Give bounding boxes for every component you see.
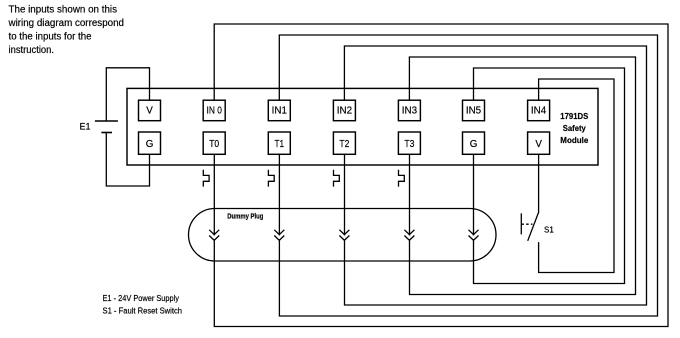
plug pin chevrons T2 xyxy=(339,230,349,241)
test contact jog at T2 xyxy=(334,170,340,187)
svg-text:instruction.: instruction. xyxy=(9,45,55,56)
svg-text:T2: T2 xyxy=(339,139,349,150)
svg-text:IN3: IN3 xyxy=(402,106,418,117)
module label 1791DS Safety Module xyxy=(560,111,588,145)
module U1 box (1791DS Safety Module) xyxy=(127,88,598,165)
wire loop IN1-T1 xyxy=(279,35,657,316)
terminal T2 xyxy=(333,132,355,154)
svg-text:S1: S1 xyxy=(544,226,554,235)
legend text xyxy=(103,294,183,316)
svg-text:T1: T1 xyxy=(275,139,285,150)
switch S1 actuator bar xyxy=(520,213,522,234)
svg-text:Dummy Plug: Dummy Plug xyxy=(227,213,263,220)
svg-text:V: V xyxy=(535,139,542,150)
svg-text:IN4: IN4 xyxy=(531,106,547,117)
note text xyxy=(8,4,125,56)
battery E1 positive plate xyxy=(95,120,118,122)
test contact jog at T0 xyxy=(203,170,209,187)
wire V to E1 top xyxy=(106,68,149,121)
svg-text:The inputs shown on this: The inputs shown on this xyxy=(9,4,118,15)
plug pin chevrons T3 xyxy=(404,230,414,241)
terminal V (bottom row, right) xyxy=(528,132,550,154)
svg-text:G: G xyxy=(146,139,154,150)
switch S1 upper wire xyxy=(538,154,540,211)
svg-text:1791DS: 1791DS xyxy=(560,111,588,121)
svg-text:G: G xyxy=(470,139,478,150)
svg-text:Safety: Safety xyxy=(563,123,586,133)
wire E1 bottom to G xyxy=(106,133,149,187)
svg-text:IN 0: IN 0 xyxy=(207,106,223,117)
switch S1 actuator link (dashed) xyxy=(521,223,532,225)
terminal T0 xyxy=(203,132,225,154)
svg-text:IN2: IN2 xyxy=(337,106,352,117)
svg-text:S1 - Fault Reset Switch: S1 - Fault Reset Switch xyxy=(103,307,183,316)
wire loop IN0-T0 xyxy=(214,24,668,327)
plug pin chevrons G xyxy=(469,230,479,241)
svg-text:T3: T3 xyxy=(404,139,414,150)
svg-text:to the inputs for the: to the inputs for the xyxy=(9,31,92,42)
terminal IN3 xyxy=(398,100,420,121)
terminal T3 xyxy=(398,132,420,154)
svg-text:T0: T0 xyxy=(209,139,219,150)
plug pin chevrons T1 xyxy=(274,230,284,241)
terminal V (top row) xyxy=(139,100,161,121)
wire loop IN2-T2 xyxy=(344,46,646,305)
wire loop IN4 to S1 xyxy=(539,79,614,273)
svg-text:Module: Module xyxy=(560,135,588,145)
svg-text:V: V xyxy=(146,106,153,117)
svg-text:E1: E1 xyxy=(80,122,91,132)
dummy plug capsule xyxy=(189,209,497,262)
terminal T1 xyxy=(268,132,290,154)
wire loop IN3-T3 xyxy=(409,57,635,295)
terminal IN2 xyxy=(333,100,355,121)
terminal IN5 xyxy=(463,100,485,121)
wire loop IN5-G xyxy=(474,68,625,284)
terminal IN0 xyxy=(203,100,225,121)
svg-text:IN5: IN5 xyxy=(466,106,482,117)
switch S1 blade xyxy=(528,212,539,241)
test contact jog at T3 xyxy=(399,170,405,187)
svg-text:IN1: IN1 xyxy=(272,106,287,117)
test contact jog at T1 xyxy=(268,170,274,187)
svg-text:wiring diagram correspond: wiring diagram correspond xyxy=(8,18,125,29)
svg-text:E1 - 24V Power Supply: E1 - 24V Power Supply xyxy=(103,294,180,303)
plug pin chevrons T0 xyxy=(209,230,219,241)
terminal G (bottom row, right) xyxy=(463,132,485,154)
terminal IN4 xyxy=(528,100,550,121)
battery E1 negative plate xyxy=(101,132,112,134)
terminal IN1 xyxy=(268,100,290,121)
terminal G (bottom row, left) xyxy=(139,132,161,154)
